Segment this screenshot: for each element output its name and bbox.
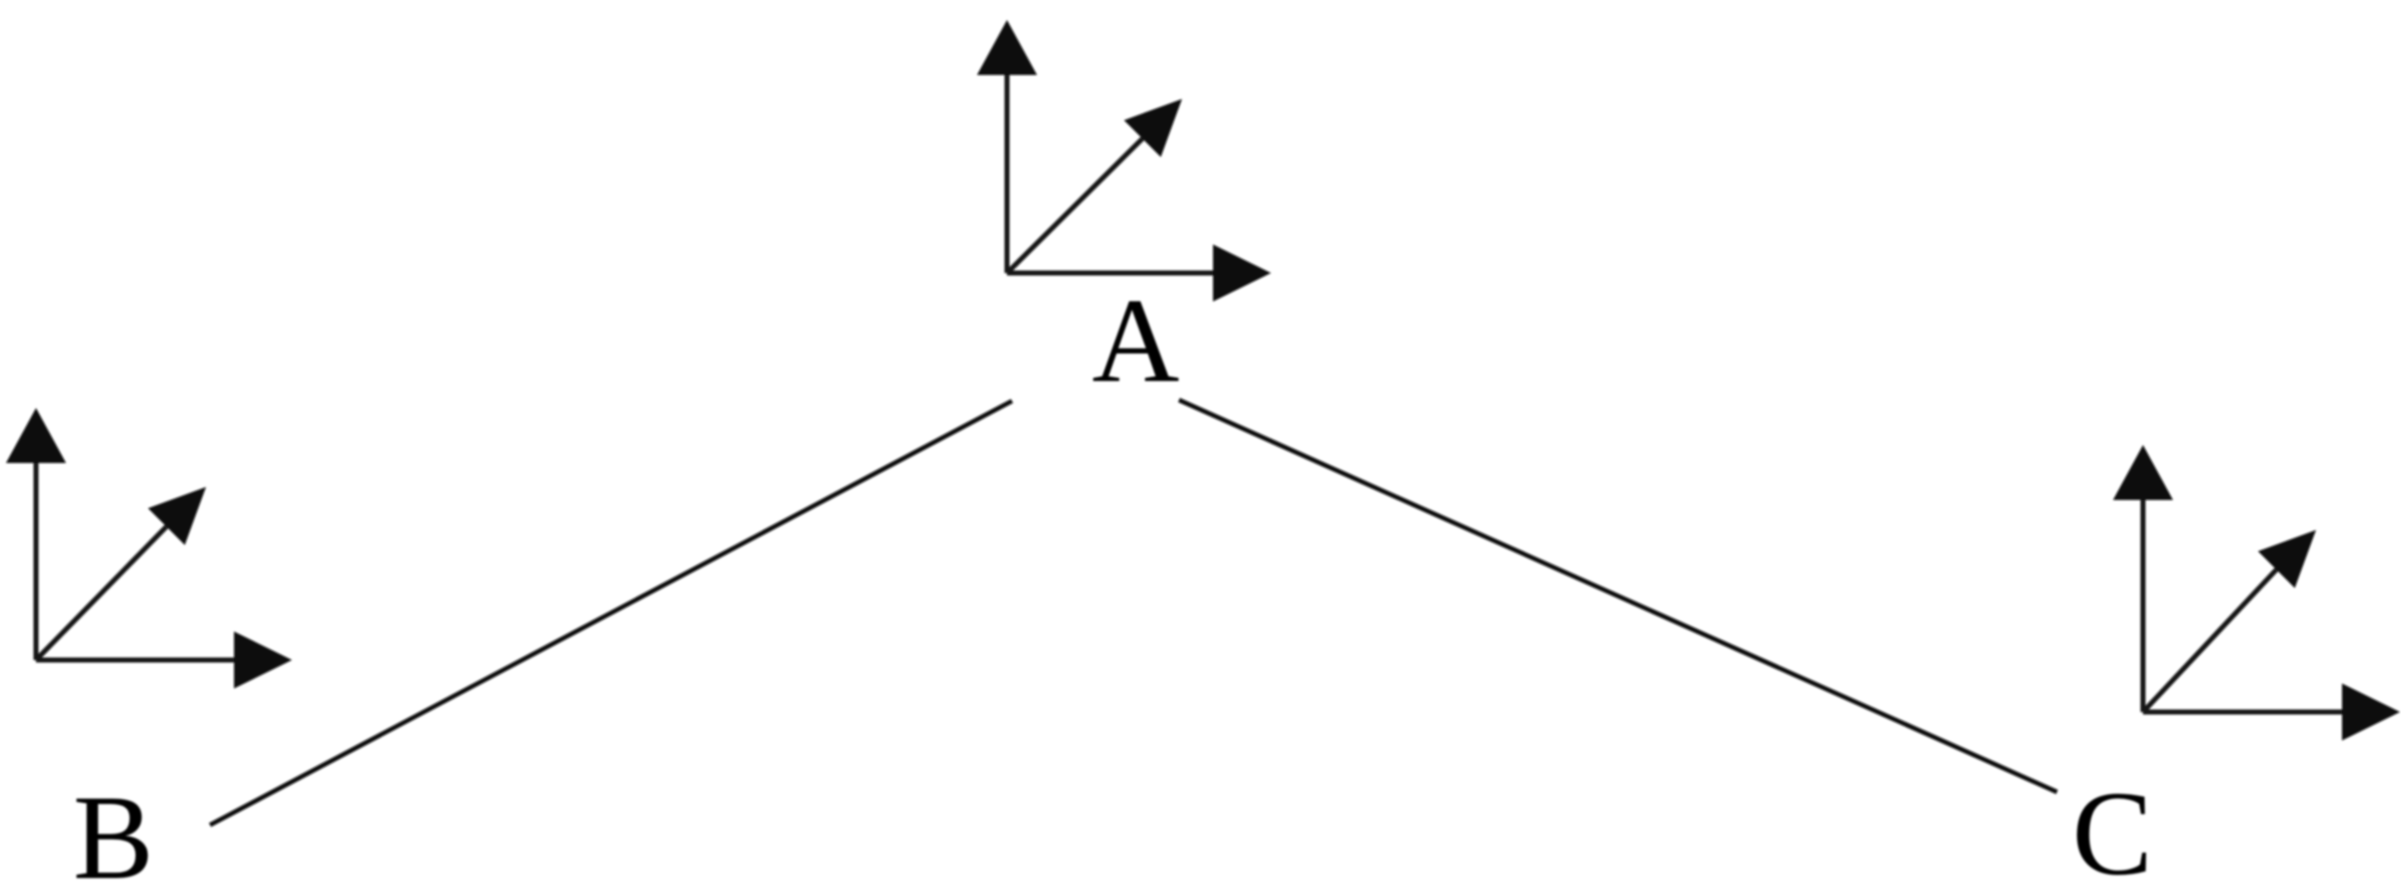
svg-text:A: A — [1092, 274, 1179, 408]
svg-text:C: C — [2072, 767, 2153, 895]
svg-text:B: B — [73, 771, 154, 895]
